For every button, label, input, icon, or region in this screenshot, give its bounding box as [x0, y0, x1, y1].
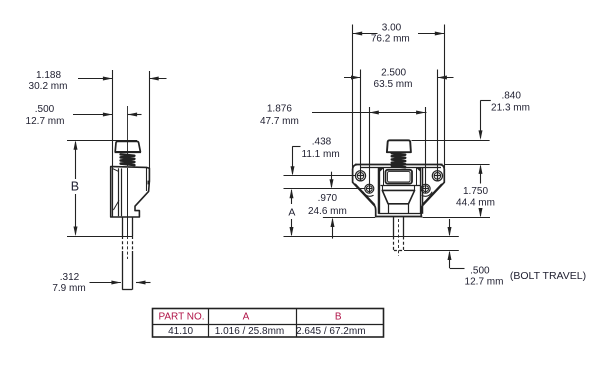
dim text 44.4 mm	[456, 198, 495, 209]
screw boss arc lower-right	[422, 192, 432, 196]
bracket top extension line	[445, 164, 490, 166]
svg-text:3.00: 3.00	[382, 22, 402, 33]
dim text 1.188	[36, 70, 61, 81]
svg-text:24.6 mm: 24.6 mm	[308, 206, 347, 217]
svg-text:.438: .438	[312, 136, 332, 147]
dim text 12.7 mm travel	[465, 277, 504, 288]
front view bracket inner diag left	[355, 184, 375, 205]
dim 2.500 line+arrows	[344, 76, 454, 80]
dim text .500 travel	[470, 265, 490, 276]
front view spring	[392, 153, 405, 167]
svg-text:2.645 / 67.2mm: 2.645 / 67.2mm	[296, 326, 365, 337]
svg-text:2.500: 2.500	[381, 68, 406, 79]
svg-text:63.5 mm: 63.5 mm	[374, 79, 413, 90]
dim 3.00 line+arrows	[353, 32, 445, 36]
front view inner rails	[384, 168, 417, 186]
dim .438 leader	[291, 147, 301, 176]
dim 2.500 extension line right	[437, 70, 439, 181]
svg-text:(BOLT TRAVEL): (BOLT TRAVEL)	[510, 270, 586, 282]
front view bracket outline right	[421, 165, 444, 217]
dim text 3.00	[382, 22, 402, 33]
svg-text:1.750: 1.750	[463, 186, 488, 197]
svg-text:A: A	[288, 206, 295, 218]
front view divider lines	[381, 185, 421, 190]
dim B top extension line	[67, 140, 137, 142]
lower screw centerline ext	[284, 188, 366, 190]
dim 1.188 extension line right	[149, 71, 151, 182]
table header PART NO.	[158, 312, 204, 323]
dim 1.876 line+arrows	[312, 111, 427, 115]
side view body left flange	[112, 167, 114, 217]
svg-text:1.876: 1.876	[267, 104, 292, 115]
svg-text:12.7 mm: 12.7 mm	[26, 116, 65, 127]
screw upper-left	[355, 171, 365, 181]
dim .312 line+arrows	[90, 281, 151, 285]
front view base	[376, 214, 423, 217]
table cell 41.10	[168, 326, 193, 337]
dim text 2.500	[381, 68, 406, 79]
side view body inner edge	[119, 168, 122, 216]
svg-text:76.2 mm: 76.2 mm	[371, 34, 410, 45]
svg-text:12.7 mm: 12.7 mm	[465, 277, 504, 288]
svg-text:.840: .840	[501, 90, 521, 101]
dim text .840	[501, 90, 521, 101]
front view window	[386, 170, 413, 184]
svg-text:47.7 mm: 47.7 mm	[260, 116, 299, 127]
front view bracket top bar	[355, 165, 443, 168]
dim text 1.876	[267, 104, 292, 115]
front view housing corner wedges	[380, 167, 420, 172]
svg-text:7.9 mm: 7.9 mm	[52, 283, 85, 294]
svg-text:B: B	[335, 312, 342, 323]
screw lower-right	[421, 184, 430, 193]
side view bolt rod	[122, 217, 132, 290]
svg-text:B: B	[71, 180, 79, 194]
front view housing sides	[379, 167, 423, 214]
dim text 47.7 mm	[260, 116, 299, 127]
svg-text:.500: .500	[35, 104, 55, 115]
dim text .438	[312, 136, 332, 147]
dim 3.00 extension line right	[444, 25, 446, 171]
svg-text:.970: .970	[318, 193, 338, 204]
side view bolt center line	[127, 168, 129, 259]
svg-text:.312: .312	[60, 272, 80, 283]
svg-text:A: A	[243, 312, 250, 323]
side view body lower chamfer	[113, 200, 119, 210]
dim text .500	[35, 104, 55, 115]
dim .500 bolt travel arrows	[448, 219, 465, 269]
bracket bottom extension line	[323, 217, 490, 219]
dim B line+arrows	[74, 140, 78, 236]
bolt retracted tip line	[404, 250, 459, 252]
svg-text:21.3 mm: 21.3 mm	[491, 103, 530, 114]
svg-text:1.188: 1.188	[36, 70, 61, 81]
dim text 63.5 mm	[374, 79, 413, 90]
dim text 7.9 mm	[52, 283, 85, 294]
dim .840 leader	[479, 101, 491, 140]
screw upper-right	[432, 171, 442, 181]
svg-text:30.2 mm: 30.2 mm	[29, 81, 68, 92]
svg-text:11.1 mm: 11.1 mm	[302, 149, 340, 160]
label BOLT TRAVEL	[510, 270, 586, 282]
dim 3.00 extension line left	[352, 25, 354, 171]
table header A	[243, 312, 250, 323]
svg-text:44.4 mm: 44.4 mm	[456, 198, 495, 209]
dim text 30.2 mm	[29, 81, 68, 92]
dim A line+arrows	[290, 189, 294, 237]
dim text B	[71, 180, 79, 194]
knob top extension line	[412, 140, 490, 142]
bolt extended tip line	[284, 236, 459, 238]
dim B bottom extension line	[67, 236, 133, 238]
upper screw centerline ext	[284, 175, 356, 177]
dim .500 line+arrows	[73, 113, 142, 117]
dim text 1.750	[463, 186, 488, 197]
table header B	[335, 312, 342, 323]
dim 1.876 extension line left	[369, 107, 371, 193]
front view bracket outline left	[353, 165, 376, 217]
table cell B value	[296, 326, 365, 337]
dim text A	[288, 206, 295, 218]
dim .970 arrows	[330, 172, 335, 239]
side view spring	[121, 154, 135, 165]
dim 1.188 extension line left	[112, 70, 114, 167]
dim 1.876 extension line right	[425, 107, 427, 193]
dim text 24.6 mm	[308, 206, 347, 217]
front view knob	[387, 140, 411, 152]
dim .500 extension line center	[127, 106, 129, 166]
front view bracket inner diag right	[422, 184, 442, 205]
table frame	[153, 309, 384, 338]
dim text .312	[60, 272, 80, 283]
dim 1.750 line+arrows	[479, 164, 483, 217]
svg-text:PART NO.: PART NO.	[158, 312, 204, 323]
svg-text:41.10: 41.10	[168, 326, 193, 337]
side view body top chamfer	[113, 169, 119, 172]
dim text 12.7 mm	[26, 116, 65, 127]
side view screw head	[115, 141, 141, 152]
dim text 11.1 mm	[302, 149, 340, 160]
front view bolt rod	[394, 217, 404, 256]
dim 2.500 extension line left	[360, 70, 362, 181]
screw lower-left	[365, 184, 374, 193]
front view pawl	[382, 190, 414, 213]
svg-text:1.016 / 25.8mm: 1.016 / 25.8mm	[215, 326, 284, 337]
svg-text:.500: .500	[470, 265, 490, 276]
dim text 21.3 mm	[491, 103, 530, 114]
dim text .970	[318, 193, 338, 204]
screw boss arc lower-left	[363, 192, 373, 196]
table cell A value	[215, 326, 284, 337]
side view body outline	[111, 167, 150, 217]
side view clip tab	[148, 181, 150, 185]
dim text 76.2 mm	[371, 34, 410, 45]
dim 1.188 line+arrows	[78, 77, 167, 81]
side view body clip inner	[146, 168, 148, 191]
